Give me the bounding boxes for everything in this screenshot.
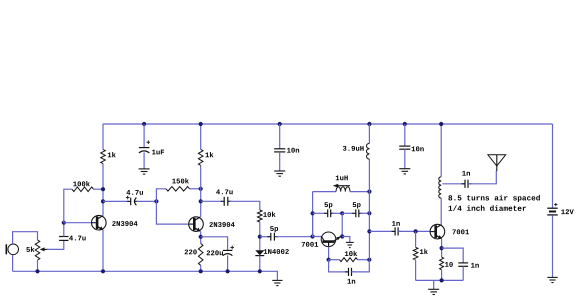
label 1N4002 bbox=[264, 249, 289, 254]
wire tank right vertical bbox=[368, 159, 370, 260]
wire battery to ground bbox=[552, 215, 554, 277]
label 2N3904 Q1 bbox=[112, 221, 137, 226]
resistor 100k feedback bbox=[72, 187, 94, 192]
label 1k Q1 bbox=[108, 152, 116, 157]
capacitor 1uF decoupling bbox=[139, 140, 150, 153]
junction tank cap midpoint bbox=[340, 211, 344, 215]
wire tank to 1n coupling bbox=[369, 230, 395, 232]
junction 10n2-top rail bbox=[403, 122, 407, 126]
wire 10k left lead bbox=[329, 259, 340, 261]
wire Q2 emitter down bbox=[200, 231, 202, 243]
wire 1n bypass to bottom wire bbox=[462, 266, 464, 280]
label 10 bbox=[445, 262, 453, 267]
potentiometer wiper arrow bbox=[40, 247, 48, 251]
label 4.7u interstage bbox=[126, 190, 143, 195]
antenna ANT bbox=[488, 155, 506, 171]
label 1k Q2 bbox=[205, 152, 213, 157]
ground 1uF ground symbol bbox=[139, 169, 150, 174]
label 220u bbox=[207, 250, 223, 255]
microphone MIC bbox=[6, 244, 18, 255]
label 1n bypass bbox=[471, 263, 479, 268]
label 1k Q4 bbox=[420, 249, 428, 254]
capacitor 10n decoupling bbox=[274, 149, 285, 152]
wire diode to ground rail bbox=[259, 256, 261, 272]
junction 100k-collector bbox=[101, 187, 105, 191]
junction tank left-base node bbox=[311, 234, 315, 238]
capacitor 1n oscillator bbox=[345, 268, 355, 276]
wire bottom wire ground stem bbox=[433, 280, 435, 289]
transistor Q4 7001 PA bbox=[430, 224, 445, 239]
junction 10-bottom wire bbox=[440, 278, 444, 282]
wire 10n2 to ground bbox=[404, 149, 406, 169]
junction tank right-1uH bbox=[367, 190, 371, 194]
wire output cap to 10k bbox=[230, 201, 260, 210]
wire emitter node to ground stub bbox=[342, 237, 350, 243]
wire 10k to diode node bbox=[259, 222, 261, 250]
inductor 3.9uH choke bbox=[366, 143, 369, 159]
wire cap row mid left bbox=[332, 212, 342, 214]
wire Q2 1k to top rail bbox=[200, 124, 202, 149]
label 10k bias bbox=[263, 212, 275, 217]
wire 100k to collector bbox=[94, 188, 104, 190]
wire tank left down cap row bbox=[312, 213, 314, 236]
wire 150k to Q2 collector bbox=[190, 188, 201, 190]
wire diode node to 5p bbox=[260, 236, 270, 238]
ground Q4 ground symbol bbox=[428, 289, 439, 294]
junction 3.9uH-top rail bbox=[367, 122, 371, 126]
resistor 1k Q1 collector load bbox=[101, 149, 106, 163]
wire cap row left bbox=[313, 212, 326, 214]
capacitor 10n decoupling 2 bbox=[399, 146, 410, 149]
junction tank right-cap row bbox=[367, 211, 371, 215]
label 4.7u output bbox=[216, 189, 233, 194]
capacitor 1n bypass bbox=[458, 263, 468, 266]
wire Q3 emitter to midpoint node bbox=[340, 236, 342, 238]
wire Q4 base node to 1k bbox=[415, 231, 417, 247]
wire Q4 bottom wire bbox=[416, 279, 464, 281]
label 100k bbox=[73, 181, 90, 186]
battery 12V bbox=[547, 203, 557, 215]
junction Q2 collector-coupling bbox=[199, 199, 203, 203]
wire rail to 10n2 bbox=[404, 124, 406, 146]
ground 10n ground symbol bbox=[274, 171, 285, 176]
junction Q4 emitter node bbox=[440, 246, 444, 250]
junction 10k right node bbox=[367, 258, 371, 262]
wire 1n loop right bbox=[352, 260, 370, 272]
label 5p tank left bbox=[324, 202, 332, 208]
wire Q4 collector up bbox=[440, 198, 442, 225]
wire Q1 base bbox=[64, 222, 92, 224]
wire tank left to 1uH bbox=[313, 191, 336, 193]
capacitor 4.7u output bbox=[221, 197, 232, 206]
label 3.9uH bbox=[343, 146, 364, 151]
wire Q2 collector to output cap bbox=[201, 200, 223, 202]
wire 10k right lead bbox=[358, 259, 370, 261]
wire tank left vertical bbox=[312, 192, 314, 237]
wire base node down to Q2 base bbox=[156, 201, 188, 224]
junction coil-top rail bbox=[439, 122, 443, 126]
label 10n bbox=[287, 148, 299, 153]
diode 1N4002 bbox=[255, 250, 264, 255]
wire emitter node to 220u bbox=[201, 237, 228, 251]
capacitor 4.7u input bbox=[59, 237, 68, 241]
junction diode node bbox=[258, 235, 262, 239]
wire rail to 1uF bbox=[143, 124, 145, 148]
label 10n 2 bbox=[412, 146, 424, 151]
wire rail to 10n bbox=[279, 124, 281, 149]
capacitor 1n coupling bbox=[392, 227, 402, 235]
junction 150k-collector bbox=[199, 187, 203, 191]
wire Q1 emitter to ground rail bbox=[102, 230, 104, 271]
label 10k oscillator bbox=[345, 251, 357, 256]
label 150k bbox=[172, 178, 189, 183]
junction 1uF-top rail bbox=[142, 122, 146, 126]
wire Q3 collector down bbox=[328, 247, 330, 260]
junction Q3 emitter node bbox=[340, 234, 344, 238]
label 1n coupling bbox=[392, 221, 400, 226]
wire coupling cap to Q2 base node bbox=[137, 200, 157, 202]
junction 220-ground rail bbox=[199, 269, 203, 273]
wire cap midpoint down to emitter bbox=[341, 213, 343, 236]
junction tank left-cap row bbox=[311, 211, 315, 215]
wire mic bottom to ground rail bbox=[12, 255, 14, 271]
label 1uH bbox=[336, 175, 348, 180]
wire Q1 collector to coupling cap bbox=[103, 200, 129, 202]
ground 10n2 ground symbol bbox=[399, 169, 410, 174]
label 8.5 turns line1 bbox=[448, 195, 539, 202]
wire Q1 collector up bbox=[102, 164, 104, 216]
junction Q2 1k-top rail bbox=[199, 122, 203, 126]
wire 1n antenna to antenna bbox=[468, 171, 496, 184]
capacitor 5p tank right bbox=[352, 209, 362, 217]
wire 5p to oscillator base bbox=[276, 236, 313, 238]
wire 1n loop left bbox=[329, 260, 349, 272]
label 1n oscillator bbox=[347, 279, 355, 284]
wire 1k to bottom wire bbox=[415, 260, 417, 280]
junction Q2 emitter node bbox=[199, 235, 203, 239]
label 1n antenna bbox=[462, 171, 470, 176]
resistor 10 emitter bbox=[440, 257, 444, 270]
wire base node up to 100k bbox=[64, 189, 72, 223]
junction Q1 base node bbox=[62, 221, 66, 225]
junction pot-ground rail bbox=[35, 269, 39, 273]
junction Q4 base node bbox=[414, 229, 418, 233]
label 12V bbox=[561, 209, 573, 214]
wire rail to 3.9uH bbox=[368, 124, 370, 143]
resistor 220 emitter bbox=[198, 244, 203, 266]
ground battery ground symbol bbox=[547, 277, 557, 282]
capacitor 4.7u interstage bbox=[126, 196, 138, 206]
junction Q1 collector-coupling bbox=[101, 199, 105, 203]
wire coil to top rail bbox=[440, 124, 442, 177]
junction tank right-1n coupling bbox=[367, 229, 371, 233]
wire emitter node to 1n bypass bbox=[442, 248, 464, 263]
label 8.5 turns line2 bbox=[449, 205, 526, 211]
wire base node to 150k bbox=[156, 189, 166, 202]
label 7001 oscillator bbox=[302, 242, 319, 247]
junction Q1 emitter-ground rail bbox=[101, 269, 105, 273]
inductor 8.5 turns output coil bbox=[439, 177, 441, 198]
ground Q3 emitter ground symbol bbox=[346, 242, 354, 247]
wire 1k to top rail bbox=[102, 124, 104, 149]
resistor 10k bias bbox=[258, 210, 263, 222]
resistor 10k oscillator bbox=[340, 258, 358, 262]
capacitor 1n antenna bbox=[462, 180, 472, 188]
wire 1uF to ground bbox=[143, 153, 145, 169]
junction 10n-top rail bbox=[278, 122, 282, 126]
resistor 150k feedback bbox=[166, 187, 190, 192]
resistor 1k Q4 base bbox=[413, 247, 418, 260]
wire input cap to Q1 base node bbox=[63, 223, 65, 237]
ground bottom rail ground symbol bbox=[272, 280, 282, 285]
transistor Q2 2N3904 bbox=[189, 217, 204, 232]
label 2N3904 Q2 bbox=[209, 222, 234, 227]
junction diode-ground rail bbox=[258, 269, 262, 273]
wire 10 to bottom wire bbox=[441, 270, 443, 281]
wire 220u to ground rail bbox=[227, 255, 229, 271]
label 5k bbox=[26, 247, 34, 252]
wire pot bottom to ground rail bbox=[37, 260, 39, 271]
wire Q2 collector up bbox=[200, 165, 202, 217]
capacitor 220u bypass bbox=[223, 246, 234, 256]
wire wiper to input cap bbox=[47, 241, 64, 250]
inductor 1uH tank bbox=[333, 184, 350, 192]
label 4.7u input bbox=[69, 236, 86, 241]
junction collector-10k node bbox=[327, 258, 331, 262]
wire bottom ground rail bbox=[13, 271, 278, 280]
wire top supply rail bbox=[103, 123, 553, 125]
label 5p coupling bbox=[270, 226, 278, 232]
label 220 bbox=[185, 249, 197, 254]
transistor Q1 2N3904 bbox=[92, 215, 107, 230]
wire 1uH to tank right bbox=[350, 191, 369, 193]
wire Q4 emitter down bbox=[441, 239, 443, 257]
label 1uF bbox=[152, 150, 164, 155]
transistor Q3 7001 oscillator bbox=[313, 232, 341, 247]
wire cap row right bbox=[360, 212, 369, 214]
capacitor 5p tank left bbox=[324, 209, 334, 217]
wire cap row mid right bbox=[342, 212, 354, 214]
capacitor 5p coupling bbox=[267, 233, 278, 241]
wire 10n to ground bbox=[279, 152, 281, 171]
potentiometer 5k body bbox=[35, 240, 40, 260]
label 5p tank right bbox=[353, 202, 361, 208]
wire mic top to pot bbox=[13, 232, 38, 244]
resistor 1k Q2 collector load bbox=[198, 149, 203, 165]
junction Q2 base node bbox=[154, 199, 158, 203]
wire 220 to ground rail bbox=[200, 265, 202, 271]
wire coil tap to 1n antenna bbox=[442, 183, 465, 185]
wire 1n coupling to Q4 base bbox=[398, 230, 430, 232]
wire right supply drop to battery bbox=[552, 124, 554, 208]
label 7001 PA bbox=[452, 229, 469, 234]
junction 220u-ground rail bbox=[226, 269, 230, 273]
